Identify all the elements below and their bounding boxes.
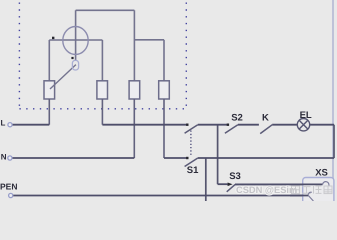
svg-text:S1: S1 bbox=[187, 165, 199, 176]
svg-text:K: K bbox=[262, 112, 269, 123]
svg-text:L: L bbox=[1, 119, 6, 128]
svg-text:CSDN @ESim: CSDN @ESim bbox=[236, 185, 297, 195]
svg-text:S3: S3 bbox=[229, 171, 241, 182]
svg-text:N: N bbox=[1, 153, 7, 162]
svg-text:PEN: PEN bbox=[0, 182, 17, 192]
svg-text:XS: XS bbox=[315, 168, 328, 179]
svg-text:S2: S2 bbox=[231, 112, 243, 123]
svg-text:EL: EL bbox=[300, 110, 312, 121]
